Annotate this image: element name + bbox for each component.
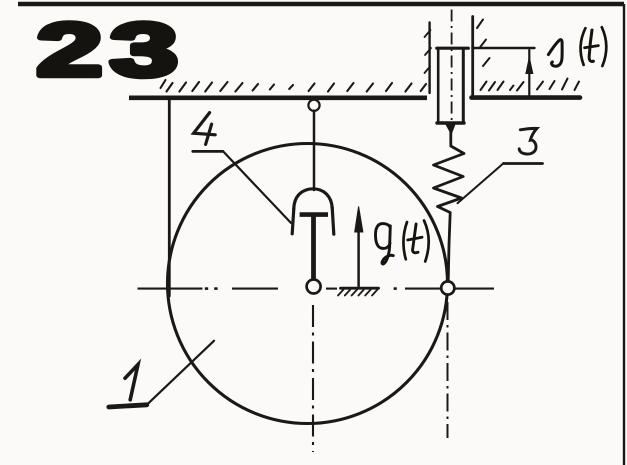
left wall from ceiling to disk bbox=[168, 99, 171, 296]
underline for label 3 bbox=[504, 162, 543, 165]
slider slot left wall bbox=[428, 23, 430, 94]
centre node circle of disk bbox=[307, 280, 321, 294]
ceiling right segment bbox=[472, 95, 581, 100]
s(t) label bbox=[548, 27, 606, 66]
s(t) reference line bbox=[473, 47, 535, 49]
label 1 bbox=[125, 365, 138, 400]
s(t) arrow bbox=[528, 50, 530, 95]
underline for label 1 bbox=[109, 405, 147, 407]
svg-text:3: 3 bbox=[110, 8, 178, 92]
q(t) arrow bbox=[357, 212, 360, 286]
hatching right of slot / around s arrow bbox=[477, 20, 579, 91]
hatching left of slider bbox=[161, 80, 427, 92]
horizontal centre axis dash-dot bbox=[138, 288, 495, 290]
damper piston T bar bbox=[300, 212, 328, 217]
vertical dash-dot below right node bbox=[447, 302, 449, 438]
right node circle (spring attachment) bbox=[441, 281, 454, 294]
pivot at ceiling bbox=[308, 100, 319, 111]
q(t) label bbox=[376, 221, 429, 264]
rod from pivot to damper bbox=[313, 111, 316, 190]
ceiling left segment bbox=[129, 96, 427, 101]
label 4 bbox=[194, 113, 216, 135]
ground reference line with hatches for q(t) bbox=[341, 287, 379, 290]
top border line bbox=[18, 2, 624, 6]
leader line for label 1 bbox=[148, 341, 214, 404]
spring 3 zigzag bbox=[434, 130, 465, 282]
spring top connector blob bbox=[447, 125, 455, 134]
leader line for label 3 bbox=[458, 163, 504, 203]
vertical axis dash-dot below centre node bbox=[312, 305, 314, 452]
leader line for label 4 bbox=[223, 151, 291, 223]
right border line bbox=[623, 4, 625, 465]
slider axis dash-dot line bbox=[451, 10, 453, 132]
damper piston stem bbox=[311, 216, 316, 281]
slider (follower) rectangle bbox=[437, 47, 469, 50]
underline for label 4 bbox=[193, 150, 223, 153]
damper 4 bell housing bbox=[294, 189, 332, 209]
hatch ticks on slot left wall bbox=[425, 30, 432, 73]
disk 1 (big circle) bbox=[168, 144, 448, 424]
label 3 bbox=[519, 128, 537, 154]
slider slot right wall bbox=[471, 17, 474, 96]
svg-text:2: 2 bbox=[37, 8, 103, 92]
